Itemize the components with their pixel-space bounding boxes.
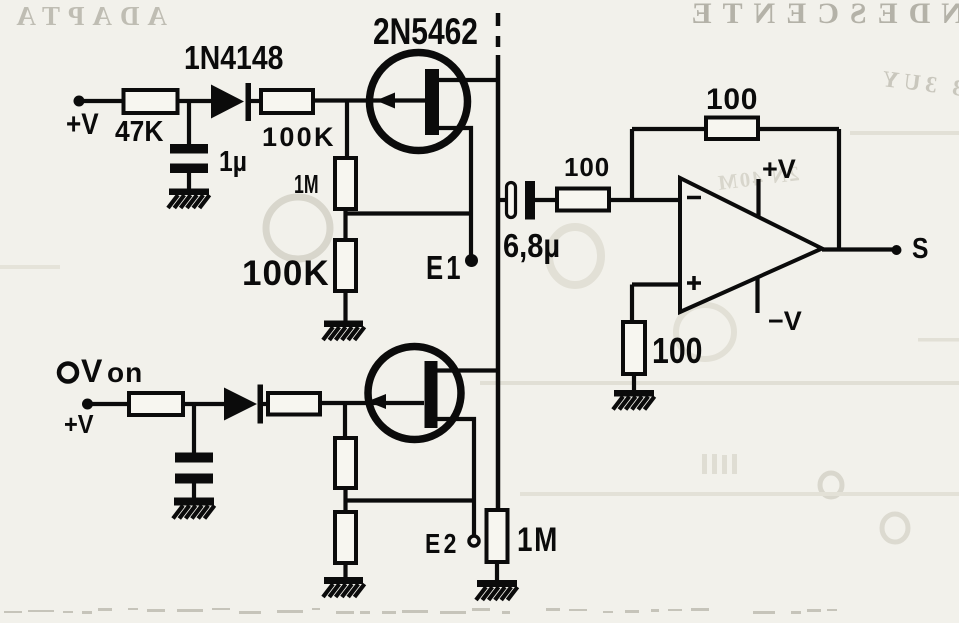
wire Q1 drain to bus [439,78,499,82]
label 1M (top) [294,170,319,199]
wire bus vertical [496,55,501,511]
ground G5 [323,577,365,597]
terminal +V (top input) [74,96,85,107]
resistor R1 47K [124,90,178,113]
wire R4 to ground [343,291,347,321]
svg-text:6,8µ: 6,8µ [503,227,560,264]
wire tap junction to source line [346,211,472,215]
label -V (op-amp) [768,306,802,336]
wire R9 to Q2 gate [320,401,424,405]
label E2 [425,529,460,560]
op-amp plus input marking [687,276,701,290]
label +V (op-amp) [762,154,796,184]
wire C1 to ground [187,172,191,190]
label +V (top) [66,107,99,140]
resistor R3 1M [335,158,356,209]
resistor R4 100K [335,240,356,291]
capacitor C2 6,8µ [507,181,536,220]
svg-text:1µ: 1µ [219,145,247,177]
wire R2 to Q1 gate [313,98,425,102]
wire Q2 source to E2 [437,419,474,536]
wire R1 to diode D1 [178,99,213,103]
wire R12 to ground [495,562,499,581]
wire Q2 drain to bus [437,368,499,372]
transistor Q2 (P-JFET) [367,347,461,440]
label 100K (lower) [242,254,330,293]
ground G3 [613,390,655,410]
op-amp minus input marking [687,196,701,200]
ground G4 [173,498,215,519]
label 1N4148 [184,39,283,77]
diode D2 [224,385,263,424]
resistor R6 100 (feedback) [706,118,758,140]
label 100 (feedback) [706,83,758,116]
svg-text:ADAPTA: ADAPTA [9,1,168,31]
wire R8 to D2 [183,402,225,406]
label 1µ [219,145,247,177]
svg-text:100: 100 [564,152,610,182]
capacitor C1 1µ [170,144,208,173]
label 2N5462 [373,12,478,53]
label 6,8µ [503,227,560,264]
svg-text:1M: 1M [517,520,559,558]
resistor R7 100 [623,322,645,374]
wire tap junction to Q2 source line [346,498,475,502]
label E1 [426,250,464,287]
svg-text:+V: +V [762,154,796,184]
capacitor C3 [175,453,213,484]
bus dashed stub [496,13,501,47]
wire op-amp + input left [632,282,680,286]
resistor R8 [129,393,183,415]
transistor Q1 2N5462 (P-JFET) [370,53,468,151]
svg-text:on: on [107,357,143,388]
terminal E2 [469,536,479,546]
node E1 [465,254,478,267]
ground G6 [476,580,518,600]
wire feedback right vertical [837,129,841,250]
label 100K (top) [262,122,336,152]
wire R10 to R11 with tap to E2 line [343,488,347,513]
svg-text:+V: +V [66,107,99,140]
wire + input down to R7 [630,285,634,324]
terminal S [892,245,902,255]
node junction gate/R3 [345,101,349,160]
node at capacitor C1 branch [187,101,191,145]
svg-text:100K: 100K [242,254,330,293]
svg-text:E2: E2 [425,529,460,560]
svg-text:−V: −V [768,306,802,336]
wire R7 to ground [632,374,636,391]
terminal +V (bottom input) [82,399,93,410]
ground G1 [168,189,210,209]
wire R3 to R4 with tap to E1 line [343,209,347,240]
svg-text:47K: 47K [115,115,163,147]
label 100 (input) [564,152,610,182]
wire D2 to R9 [263,402,269,406]
ground G2 [323,321,365,341]
label 47K [115,115,163,147]
wire feedback left vertical [630,129,634,200]
wire bus to C2 [498,198,507,202]
svg-text:E1: E1 [426,250,464,287]
wire feedback top [632,127,839,131]
pin -V supply [755,277,759,313]
wire Q1 source to E1 [439,128,471,257]
wire D1 to R2 [250,99,262,103]
wire input to R1 [79,99,125,103]
svg-text:1M: 1M [294,170,319,199]
label S [912,232,928,264]
svg-text:+V: +V [64,411,94,439]
node junction gate/R10 [343,403,347,439]
resistor R9 [268,393,320,415]
diode D1 1N4148 [211,83,251,121]
op-amp U1 [680,178,822,312]
resistor R11 [335,512,356,563]
svg-text:100: 100 [652,332,702,372]
label 1M (bottom) [517,520,559,558]
resistor R2 100K [261,90,313,113]
svg-text:V: V [81,353,103,389]
resistor R12 1M [487,510,508,562]
wire input to R8 [87,402,130,406]
resistor R10 [335,438,356,488]
terminal Von (O marker) [59,364,77,382]
label +V (bottom) [64,411,94,439]
svg-text:2N5462: 2N5462 [373,12,478,53]
wire R11 to ground [343,563,347,578]
pin +V supply [756,179,760,217]
wire R5 to op-amp inverting input [609,198,680,202]
resistor R5 100 [557,189,609,211]
svg-text:100: 100 [706,83,758,116]
wire op-amp output [822,247,894,251]
wire C2 to R5 [535,198,558,202]
label Von [81,353,143,389]
svg-text:100K: 100K [262,122,336,152]
wire C3 to ground [192,483,196,499]
svg-text:NDESCENTE: NDESCENTE [681,0,959,30]
label 100 (to ground) [652,332,702,372]
svg-text:S: S [912,232,928,264]
svg-text:1N4148: 1N4148 [184,39,283,77]
node at capacitor C3 branch [192,404,196,453]
